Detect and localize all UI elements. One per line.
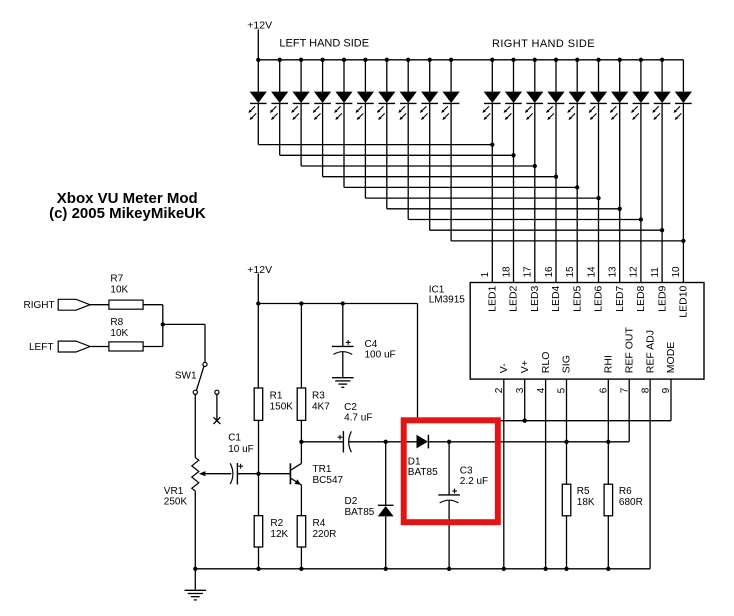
- wire SW1 throw B stub: [216, 394, 218, 420]
- wire LED L7 cathode to stair: [386, 103, 388, 208]
- wire pin4 RLO to ground rail: [545, 379, 547, 569]
- wire C3 to ground rail: [448, 501, 450, 569]
- wire LED L6 cathode to stair: [364, 103, 366, 198]
- svg-text:R6: R6: [619, 486, 632, 497]
- node bus-left-2: [278, 58, 282, 62]
- svg-text:D2: D2: [345, 496, 358, 507]
- svg-text:680R: 680R: [619, 497, 643, 508]
- node bus-right-3: [533, 58, 537, 62]
- node rail pin2: [502, 567, 506, 571]
- svg-text:13: 13: [608, 266, 619, 278]
- wire R4 to ground rail: [300, 547, 302, 569]
- wire LED L5 anode: [343, 60, 345, 92]
- svg-text:LED2: LED2: [508, 285, 520, 311]
- LED L8 (left ch): [400, 92, 416, 102]
- svg-text:TR1: TR1: [313, 464, 332, 475]
- capacitor C2 4.7uF: [342, 431, 344, 452]
- svg-text:BAT85: BAT85: [408, 467, 438, 478]
- svg-text:SIG: SIG: [561, 355, 573, 373]
- svg-text:+12V: +12V: [247, 264, 272, 276]
- LED L10 (left ch): [443, 92, 459, 102]
- svg-text:D1: D1: [408, 457, 421, 468]
- wire mix node to SW1: [163, 323, 205, 325]
- svg-text:R8: R8: [110, 317, 123, 328]
- wire C3 top: [448, 442, 450, 495]
- wire LED L6 anode: [364, 60, 366, 92]
- svg-text:BC547: BC547: [313, 475, 344, 486]
- node bus-right-9: [660, 58, 664, 62]
- wire pin2 V- to ground rail: [503, 379, 505, 569]
- node bus-left-10: [449, 58, 453, 62]
- connector RIGHT input: [58, 299, 90, 310]
- wire pin8 REF ADJ to rail end: [649, 379, 651, 569]
- wire LED R8 anode: [640, 60, 642, 92]
- LED R5 (right ch): [569, 92, 585, 102]
- wire pin5 SIG down: [566, 379, 568, 484]
- wire LED L9 cathode to stair: [429, 103, 431, 230]
- node rail R5: [564, 567, 568, 571]
- svg-text:+12V: +12V: [247, 20, 272, 32]
- LED R10 (right ch): [676, 92, 692, 102]
- node bus-left-7: [385, 58, 389, 62]
- wire LED R5 anode: [576, 60, 578, 92]
- capacitor C1 10uF: [236, 463, 238, 484]
- LED L7 (left ch): [379, 92, 395, 102]
- svg-text:4.7 uF: 4.7 uF: [344, 413, 372, 424]
- wire VR1 to ground rail: [194, 491, 196, 569]
- wire LED R4 cathode to IC pin: [555, 103, 557, 282]
- wire rail to C4: [342, 304, 344, 347]
- wire stair level 9: [430, 229, 662, 231]
- ground main: [185, 589, 207, 591]
- LED L9 (left ch): [422, 92, 438, 102]
- wire LEFT to R8: [90, 346, 109, 348]
- wire LED R8 cathode to IC pin: [640, 103, 642, 282]
- wire stair level 5: [344, 186, 577, 188]
- switch SW1 lever: [196, 366, 204, 390]
- svg-text:R3: R3: [312, 390, 325, 401]
- svg-text:R2: R2: [270, 518, 283, 529]
- wire R5 to ground rail: [566, 516, 568, 569]
- wire LED L1 cathode to stair: [257, 103, 259, 144]
- wire LED L3 cathode to stair: [300, 103, 302, 166]
- node C3 junction: [447, 440, 451, 444]
- wire LED R4 anode: [555, 60, 557, 92]
- polarity + C3: [452, 490, 457, 492]
- node bus-right-2: [511, 58, 515, 62]
- LED R6 (right ch): [591, 92, 607, 102]
- switch SW1 throw B contact: [215, 390, 219, 394]
- wire LED L4 anode: [322, 60, 324, 92]
- wire pin7 REF OUT: [628, 379, 630, 442]
- LED R4 (right ch): [548, 92, 564, 102]
- svg-text:18: 18: [501, 266, 512, 278]
- svg-text:V+: V+: [519, 360, 531, 373]
- highlight box (D1/C3 mod): [404, 420, 498, 522]
- wire stair level 1: [258, 144, 492, 146]
- resistor R1 150K: [254, 388, 263, 420]
- svg-text:17: 17: [523, 266, 534, 278]
- node bus-right-7: [618, 58, 622, 62]
- svg-text:LED8: LED8: [635, 285, 647, 311]
- node stair junction 8: [639, 217, 643, 221]
- VR1 wiper arrow: [199, 471, 206, 476]
- wire D2 to ground rail: [385, 516, 387, 568]
- resistor R6 680R: [604, 484, 613, 516]
- wire rail to R1: [257, 304, 259, 389]
- node bus-right-1: [490, 58, 494, 62]
- node RHI junction: [606, 440, 610, 444]
- wire SW1 to VR1: [194, 394, 196, 457]
- wire +12V drop: [257, 274, 259, 304]
- svg-text:VR1: VR1: [164, 486, 184, 497]
- svg-text:MODE: MODE: [665, 342, 677, 374]
- wire collector to C2: [301, 441, 343, 443]
- wire LED L9 anode: [429, 60, 431, 92]
- resistor R3 4K7: [297, 388, 306, 420]
- node base junction: [256, 472, 260, 476]
- capacitor C4 100uF: [332, 345, 354, 347]
- node V+ pin3 junction: [523, 419, 527, 423]
- wire C4 to ground: [342, 352, 344, 378]
- node rail R1: [256, 301, 260, 305]
- wire R6 to ground rail: [607, 516, 609, 569]
- LED L2 (left ch): [272, 92, 288, 102]
- svg-text:V-: V-: [498, 363, 510, 373]
- svg-text:RIGHT HAND SIDE: RIGHT HAND SIDE: [492, 38, 595, 50]
- node stair junction 4: [554, 175, 558, 179]
- node bus-left-9: [428, 58, 432, 62]
- wire R8 to mix node: [143, 346, 163, 348]
- resistor R8 10K: [109, 342, 143, 351]
- node stair junction 10: [681, 239, 685, 243]
- wire stair level 8: [408, 219, 641, 221]
- wire LED R3 anode: [534, 60, 536, 92]
- ground C4: [332, 377, 354, 379]
- wire LED L4 cathode to stair: [322, 103, 324, 176]
- svg-text:C2: C2: [344, 402, 357, 413]
- wire stair level 7: [387, 208, 620, 210]
- wire LED L10 anode: [450, 60, 452, 92]
- node SIG junction: [564, 440, 568, 444]
- wire +12V to V+ (vertical): [417, 304, 419, 421]
- wire LED L7 anode: [386, 60, 388, 92]
- wire RIGHT to R7: [90, 304, 109, 306]
- node bus-left-3: [299, 58, 303, 62]
- svg-text:15: 15: [565, 266, 576, 278]
- LED L5 (left ch): [336, 92, 352, 102]
- wire LED R6 cathode to IC pin: [598, 103, 600, 282]
- wire LED R7 cathode to IC pin: [619, 103, 621, 282]
- svg-text:LED7: LED7: [614, 285, 626, 311]
- node stair junction 7: [618, 207, 622, 211]
- svg-text:12: 12: [629, 266, 640, 278]
- wire pin3 V+: [524, 379, 526, 421]
- svg-text:18K: 18K: [577, 497, 595, 508]
- wire ground rail: [195, 568, 650, 570]
- node bus-left-4: [320, 58, 324, 62]
- capacitor C3 2.2uF: [438, 494, 460, 496]
- wire rail to R3: [300, 304, 302, 389]
- wire LED L2 cathode to stair: [279, 103, 281, 155]
- svg-text:R4: R4: [313, 518, 326, 529]
- wire LED L3 anode: [300, 60, 302, 92]
- node D2 junction: [384, 440, 388, 444]
- svg-text:2.2 uF: 2.2 uF: [460, 476, 488, 487]
- wire LED anode bus: [258, 59, 683, 61]
- svg-text:LED4: LED4: [550, 285, 562, 311]
- resistor R2 12K: [254, 516, 263, 547]
- wire last LED drop: [682, 60, 684, 92]
- node rail VR1: [193, 567, 197, 571]
- polarity + C2: [338, 436, 343, 438]
- svg-text:4K7: 4K7: [312, 401, 330, 412]
- svg-text:1: 1: [480, 272, 491, 278]
- transistor TR1 BC547: [289, 463, 291, 484]
- svg-text:14: 14: [586, 266, 597, 278]
- svg-text:R1: R1: [270, 390, 283, 401]
- svg-text:10 uF: 10 uF: [228, 444, 254, 455]
- wire stair level 4: [323, 176, 556, 178]
- resistor R4 220R: [297, 516, 306, 547]
- wire R1 to base node: [258, 420, 260, 473]
- switch SW1 common contact: [203, 362, 207, 366]
- svg-text:RIGHT: RIGHT: [24, 300, 55, 311]
- svg-text:150K: 150K: [270, 401, 294, 412]
- svg-text:10: 10: [671, 266, 682, 278]
- resistor R7 10K: [109, 300, 143, 309]
- svg-text:LEFT: LEFT: [29, 342, 53, 353]
- node rail R2: [256, 567, 260, 571]
- svg-text:220R: 220R: [313, 529, 337, 540]
- wire LED L1 anode: [257, 60, 259, 92]
- svg-text:LED3: LED3: [529, 285, 541, 311]
- node bus-right-4: [554, 58, 558, 62]
- node bus-left-1: [256, 58, 260, 62]
- wire base node to R2: [258, 474, 260, 516]
- svg-text:C4: C4: [365, 339, 378, 350]
- node bus-left-6: [363, 58, 367, 62]
- diode D2 BAT85: [378, 504, 394, 506]
- svg-text:LED1: LED1: [487, 285, 499, 311]
- svg-text:12K: 12K: [270, 529, 288, 540]
- polarity + C1: [238, 465, 243, 467]
- wire C1 to base node: [237, 473, 258, 475]
- wire LED R2 anode: [513, 60, 515, 92]
- node rail C4: [341, 301, 345, 305]
- node bus-right-8: [639, 58, 643, 62]
- wire LED L8 anode: [407, 60, 409, 92]
- wire LED R9 anode: [661, 60, 663, 92]
- op-amp IC1 LM3915 body: [470, 283, 704, 380]
- wire D1 cathode line: [428, 441, 629, 443]
- wire LED L8 cathode to stair: [407, 103, 409, 219]
- LED L1 (left ch): [251, 92, 267, 102]
- wire D2 top: [385, 442, 387, 506]
- svg-text:LM3915: LM3915: [429, 295, 466, 306]
- wire LED R3 cathode to IC pin: [534, 103, 536, 282]
- LED R8 (right ch): [633, 92, 649, 102]
- node rail D2: [384, 567, 388, 571]
- node rail R6: [606, 567, 610, 571]
- wire LED R5 cathode to IC pin: [576, 103, 578, 282]
- node rail pin4: [543, 567, 547, 571]
- LED L6 (left ch): [358, 92, 374, 102]
- svg-text:10K: 10K: [110, 285, 128, 296]
- wire LED R7 anode: [619, 60, 621, 92]
- node rail R3: [299, 301, 303, 305]
- svg-text:C3: C3: [460, 465, 473, 476]
- svg-text:100 uF: 100 uF: [365, 349, 396, 360]
- wire stair level 6: [365, 197, 598, 199]
- svg-text:R5: R5: [577, 486, 590, 497]
- wire LED R10 cathode to IC pin: [682, 103, 684, 282]
- wire +12V to LED bus: [257, 30, 259, 60]
- wire LED R1 cathode to IC pin: [491, 103, 493, 282]
- svg-text:BAT85: BAT85: [345, 507, 375, 518]
- svg-text:16: 16: [544, 266, 555, 278]
- wire R3 to collector node: [300, 420, 302, 441]
- svg-text:10K: 10K: [110, 328, 128, 339]
- node stair junction 1: [490, 142, 494, 146]
- svg-text:LED6: LED6: [593, 285, 605, 311]
- resistor R5 18K: [562, 484, 571, 516]
- node collector junction: [299, 440, 303, 444]
- svg-text:LED5: LED5: [571, 285, 583, 311]
- LED R9 (right ch): [654, 92, 670, 102]
- svg-text:250K: 250K: [164, 497, 188, 508]
- svg-text:SW1: SW1: [175, 370, 197, 381]
- wire LED R6 anode: [598, 60, 600, 92]
- node bus-right-5: [575, 58, 579, 62]
- svg-text:RHI: RHI: [603, 355, 615, 373]
- wire C2 to D2/D1: [348, 441, 417, 443]
- svg-text:RLO: RLO: [540, 352, 552, 374]
- diode D1 BAT85: [417, 435, 428, 449]
- mark unused throw X: [214, 417, 221, 424]
- svg-text:11: 11: [650, 267, 661, 278]
- wire base wire: [259, 473, 290, 475]
- wire V+ feed: [418, 420, 672, 422]
- potentiometer VR1 250K: [192, 458, 199, 492]
- wire LED R1 anode: [491, 60, 493, 92]
- wire stair level 2: [280, 154, 514, 156]
- wire R7 to mix node: [143, 304, 163, 306]
- wire R2 to ground rail: [258, 547, 260, 569]
- node bus-right-6: [596, 58, 600, 62]
- LED R3 (right ch): [527, 92, 543, 102]
- wire LED R9 cathode to IC pin: [661, 103, 663, 282]
- wire rail to ground: [194, 569, 196, 591]
- svg-text:C1: C1: [228, 433, 241, 444]
- wire LED R2 cathode to IC pin: [513, 103, 515, 282]
- node bus-left-8: [406, 58, 410, 62]
- LED R7 (right ch): [612, 92, 628, 102]
- wire +12V rail: [258, 303, 417, 305]
- node rail C3: [447, 567, 451, 571]
- node stair junction 2: [511, 153, 515, 157]
- svg-text:R7: R7: [110, 274, 123, 285]
- wire pin6 RHI down: [607, 379, 609, 484]
- switch SW1 throw A contact: [193, 390, 197, 394]
- connector LEFT input: [58, 341, 90, 352]
- svg-text:LED10: LED10: [678, 285, 690, 317]
- LED L4 (left ch): [315, 92, 331, 102]
- polarity + C4: [346, 341, 351, 343]
- LED L3 (left ch): [293, 92, 309, 102]
- node stair junction 9: [660, 228, 664, 232]
- wire LED L10 cathode to stair: [450, 103, 452, 241]
- node bus-left-5: [342, 58, 346, 62]
- node stair junction 5: [575, 185, 579, 189]
- svg-text:LED9: LED9: [656, 285, 668, 311]
- wire pin9 MODE: [670, 379, 672, 421]
- svg-text:LEFT HAND SIDE: LEFT HAND SIDE: [279, 38, 369, 50]
- wire LED L2 anode: [279, 60, 281, 92]
- LED R2 (right ch): [506, 92, 522, 102]
- wire stair level 3: [301, 165, 535, 167]
- node mix junction: [161, 322, 165, 326]
- wire LED L5 cathode to stair: [343, 103, 345, 187]
- node rail R4: [299, 567, 303, 571]
- svg-text:REF ADJ: REF ADJ: [644, 330, 656, 373]
- wire stair level 10: [451, 240, 683, 242]
- svg-text:(c) 2005 MikeyMikeUK: (c) 2005 MikeyMikeUK: [49, 205, 206, 222]
- LED R1 (right ch): [485, 92, 501, 102]
- node stair junction 6: [596, 196, 600, 200]
- node stair junction 3: [533, 164, 537, 168]
- svg-text:REF OUT: REF OUT: [623, 327, 635, 374]
